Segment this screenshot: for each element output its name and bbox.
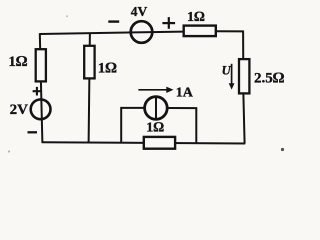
wire top rail right (1Ω box to top-right corner) [217,30,244,32]
minus sign (4V left) [108,20,119,22]
svg-text:U: U [222,63,232,77]
svg-text:4V: 4V [131,4,148,19]
wire top rail left (left corner to 1Ω box, through 4V source) [40,32,183,34]
wire middle branch vertical [89,33,90,144]
svg-text:1A: 1A [176,85,194,100]
wire left vertical (through 2V source) [40,33,43,143]
wire right vertical [243,31,245,144]
current source 1A internal bar [155,96,157,121]
wire bottom rail [42,142,245,143]
resistor R5 2.5Ω (right branch) [239,59,249,93]
wire current-source left stub [121,108,143,143]
plus sign (2V top) [33,87,42,96]
current direction arrow 1A [138,87,173,93]
resistor R1 1Ω (left branch) [36,49,46,81]
voltage source 2V (left) [31,99,51,119]
scan speckle bottom-left [8,150,10,152]
svg-text:1Ω: 1Ω [146,120,164,135]
scan speckle bottom-right [281,148,284,151]
scan speckle upper-left [66,15,68,17]
svg-text:1Ω: 1Ω [8,54,28,70]
svg-text:1Ω: 1Ω [98,60,118,76]
resistor R2 1Ω (top) [184,26,216,36]
wire current-source right stub [169,108,197,143]
svg-text:1Ω: 1Ω [187,10,205,25]
minus sign (2V bottom) [28,131,38,133]
svg-text:2.5Ω: 2.5Ω [254,70,285,86]
current source 1A circle [145,97,168,120]
voltage source 4V (top) [131,21,153,43]
resistor R4 1Ω (bottom, parallel with 1A source) [144,137,175,149]
resistor R3 1Ω (middle branch) [84,46,94,79]
plus sign (4V right) [162,17,175,29]
voltage arrow U (down) [229,64,235,90]
svg-text:2V: 2V [10,102,29,118]
